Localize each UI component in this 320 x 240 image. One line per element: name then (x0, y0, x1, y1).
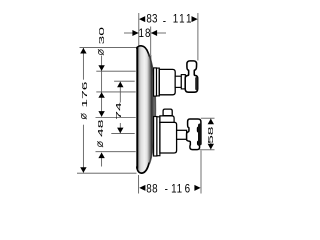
svg-text:1: 1 (173, 13, 178, 26)
svg-text:1: 1 (179, 13, 184, 26)
svg-text:176: 176 (80, 81, 88, 107)
svg-text:8: 8 (146, 183, 151, 196)
svg-text:58: 58 (206, 126, 214, 144)
svg-text:48: 48 (96, 119, 104, 137)
svg-text:8: 8 (152, 183, 157, 196)
svg-text:3: 3 (152, 13, 157, 26)
svg-text:8: 8 (145, 27, 150, 40)
svg-text:8: 8 (146, 13, 151, 26)
svg-text:1: 1 (177, 183, 182, 196)
svg-text:1: 1 (138, 27, 143, 40)
svg-text:6: 6 (185, 183, 190, 196)
svg-text:1: 1 (186, 13, 191, 26)
svg-text:74: 74 (114, 102, 122, 120)
svg-text:-: - (163, 14, 167, 27)
svg-text:-: - (165, 183, 169, 196)
svg-text:30: 30 (97, 27, 105, 45)
